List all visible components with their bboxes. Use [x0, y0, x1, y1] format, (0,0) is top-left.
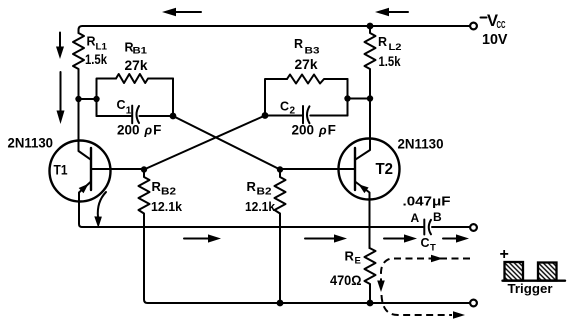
svg-text:T2: T2: [376, 161, 394, 178]
capacitor C1: [131, 106, 133, 124]
signal arrow right 2: [305, 238, 336, 240]
trigger pulse 1: [505, 262, 524, 281]
cross wire C2 loop to T1 base node: [144, 116, 265, 170]
emitter T1: [79, 182, 91, 228]
signal arrow right 1: [184, 238, 210, 240]
svg-text:C: C: [280, 100, 289, 114]
wire CT to terminal: [432, 226, 470, 228]
svg-text:2: 2: [290, 106, 296, 117]
RB1/C1 loop right side: [172, 79, 174, 117]
wire collector lead T2: [355, 99, 370, 160]
terminal -Vcc: [470, 23, 477, 30]
svg-text:L1: L1: [96, 42, 108, 52]
base bar T2: [354, 148, 356, 190]
svg-text:12.1k: 12.1k: [245, 199, 276, 214]
svg-text:R: R: [378, 35, 387, 49]
capacitor CT: [423, 220, 425, 235]
svg-text:1.5k: 1.5k: [85, 52, 107, 67]
signal arrow right 4: [443, 238, 458, 240]
resistor RB2 right: [275, 170, 286, 304]
svg-text:10V: 10V: [482, 31, 508, 48]
svg-text:R: R: [152, 179, 162, 194]
svg-text:C: C: [117, 98, 126, 112]
RB3/C2 loop left side: [265, 79, 287, 116]
base wire T2: [280, 168, 355, 170]
emitter T2: [355, 182, 370, 249]
capacitor C2: [302, 106, 304, 123]
node RB2 right bottom: [277, 300, 284, 307]
resistor RB3: [287, 75, 348, 84]
dashed trigger path upper: [381, 259, 470, 284]
current arrow down (lower): [60, 72, 62, 111]
svg-text:CC: CC: [497, 20, 506, 31]
label -Vcc: [481, 17, 487, 19]
svg-text:R: R: [345, 249, 355, 264]
svg-text:B3: B3: [305, 45, 320, 55]
svg-text:B2: B2: [161, 187, 176, 198]
node RB2 right top: [277, 166, 283, 172]
trigger pulse 2: [538, 263, 557, 281]
wire arrow left on top rail (right): [386, 11, 408, 13]
dashed trigger path lower: [382, 295, 453, 315]
svg-text:2N1130: 2N1130: [398, 136, 444, 152]
svg-text:2N1130: 2N1130: [8, 135, 54, 151]
node junction RL1/RB1: [75, 96, 81, 102]
node RE bottom: [367, 300, 374, 307]
current arrow curved T1 emitter: [98, 192, 106, 217]
svg-text:R: R: [294, 37, 303, 51]
svg-text:T1: T1: [54, 162, 68, 178]
svg-text:27k: 27k: [295, 56, 318, 72]
node C1 loop bottom right: [170, 113, 177, 120]
resistor RB2 left: [139, 170, 470, 304]
svg-text:1.5k: 1.5k: [379, 54, 401, 69]
terminal output A-B: [470, 224, 477, 231]
svg-text:C: C: [421, 236, 430, 250]
node RB2 left top: [141, 166, 147, 172]
svg-text:R: R: [247, 179, 257, 194]
wire top rail: [79, 26, 470, 33]
svg-text:+: +: [500, 246, 509, 263]
RB1/C1 loop left side: [97, 79, 117, 117]
svg-text:1: 1: [126, 106, 132, 117]
svg-text:B: B: [433, 210, 442, 224]
svg-text:200ρF: 200ρF: [117, 123, 161, 138]
wire C2 loop to RL2: [348, 98, 371, 100]
wire C2 bottom left: [265, 115, 302, 117]
transistor T2: [339, 139, 400, 200]
svg-text:R: R: [87, 35, 96, 49]
current arrow down (upper): [59, 33, 61, 48]
node top rail RL2: [367, 23, 374, 30]
svg-text:.047μF: .047μF: [403, 195, 451, 209]
base wire T1: [91, 168, 144, 170]
wire arrow left on top rail (left): [173, 11, 201, 13]
trigger baseline: [503, 280, 566, 282]
cross wire C1 loop to T2 base node: [173, 116, 280, 170]
wire C1 bottom left: [97, 115, 132, 117]
wire C1 bottom right: [140, 115, 174, 117]
node C2 loop bottom left: [262, 112, 269, 119]
svg-text:Trigger: Trigger: [508, 281, 553, 296]
wire C2 bottom right: [310, 115, 347, 117]
svg-text:200ρF: 200ρF: [292, 123, 336, 138]
wire collector lead T1: [79, 99, 92, 160]
svg-text:A: A: [411, 211, 420, 225]
RB3/C2 loop right side: [347, 79, 349, 116]
base bar T1: [90, 148, 92, 190]
node C2 loop right: [344, 95, 350, 101]
svg-text:B2: B2: [257, 187, 272, 198]
signal arrow right 3: [384, 238, 406, 240]
wire output mid (emitter rail): [82, 226, 423, 228]
svg-text:12.1k: 12.1k: [151, 199, 183, 214]
svg-text:E: E: [355, 256, 361, 267]
resistor RL1: [73, 33, 84, 99]
svg-text:B1: B1: [133, 46, 148, 56]
svg-text:470Ω: 470Ω: [330, 273, 362, 288]
svg-text:27k: 27k: [125, 57, 148, 73]
svg-text:T: T: [430, 243, 436, 254]
resistor RB1: [116, 74, 173, 83]
resistor RL2: [365, 26, 376, 99]
terminal bottom output: [470, 300, 477, 307]
node RL2 mid: [367, 95, 373, 101]
node C1 loop left: [93, 96, 99, 102]
wire to C1 loop: [79, 98, 97, 100]
transistor T1: [50, 141, 111, 202]
resistor RE: [365, 248, 376, 303]
svg-text:L2: L2: [389, 42, 402, 52]
